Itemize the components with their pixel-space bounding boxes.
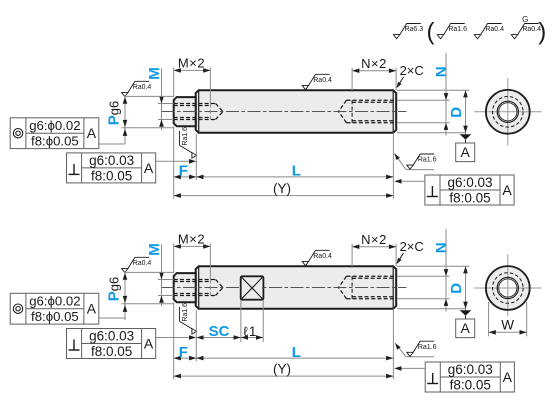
datum A box — [456, 143, 475, 162]
svg-text:(Y): (Y) — [273, 361, 291, 376]
svg-text:A: A — [503, 369, 513, 385]
svg-text:A: A — [144, 160, 154, 176]
extension lines M hole dia — [158, 279, 174, 281]
svg-text:A: A — [502, 182, 512, 198]
leader to right frame — [396, 367, 425, 369]
svg-text:D: D — [448, 107, 465, 118]
extension line M thread depth — [209, 243, 211, 279]
dimension line P dia — [124, 96, 126, 144]
dimension (Y) — [174, 195, 394, 197]
body left chamfer line — [198, 91, 200, 133]
svg-text:f8:0.05: f8:0.05 — [449, 190, 490, 205]
svg-text:D: D — [448, 283, 465, 294]
end view hole circles — [497, 277, 518, 298]
dimension F — [174, 357, 197, 359]
dimension line N dia — [445, 229, 447, 312]
concentricity feature control frame — [10, 118, 99, 149]
dimension line M dia — [161, 245, 163, 307]
svg-text:L: L — [292, 163, 301, 180]
tapped hole M (hidden lines) — [174, 279, 216, 281]
svg-text:N×2: N×2 — [361, 56, 387, 71]
stud (pilot dia P) — [174, 97, 196, 126]
tapped hole N drill cone — [339, 100, 347, 111]
leader arrow on stud extension line — [123, 129, 128, 136]
surface finish Ra0.4 on body — [302, 74, 332, 89]
end view centerlines — [474, 287, 542, 289]
dimension M×2 — [174, 69, 211, 71]
leader from concentricity frame — [99, 317, 125, 319]
extension line body right face (up) — [395, 244, 397, 267]
set-screw flat symbol (square with X) — [241, 276, 264, 299]
svg-text:Ra0.4: Ra0.4 — [313, 253, 332, 260]
svg-text:A: A — [461, 144, 471, 160]
extension lines right end (outer dia) — [397, 89, 470, 91]
svg-text:A: A — [87, 125, 97, 141]
datum A triangle — [460, 310, 472, 316]
surface finish Ra1.6 right end with leader — [395, 343, 406, 357]
extension line N thread depth — [351, 68, 353, 91]
dimension M×2 — [174, 245, 211, 247]
end view outer circle fill — [486, 266, 530, 310]
extension lines right end (hole dia) — [397, 275, 450, 277]
svg-text:Pg6: Pg6 — [106, 101, 123, 125]
extension line body right face (up) — [395, 68, 397, 91]
svg-text:Ra0.4: Ra0.4 — [313, 77, 332, 84]
svg-text:Ra1.6: Ra1.6 — [182, 303, 189, 322]
svg-text:g6:ϕ0.02: g6:ϕ0.02 — [29, 118, 80, 133]
svg-text:g6:0.03: g6:0.03 — [89, 329, 134, 344]
leader to right frame — [396, 180, 425, 182]
svg-text:F: F — [179, 163, 188, 180]
extension lines stud dia — [124, 95, 174, 97]
thread end line N — [351, 276, 353, 298]
extension line stud left below — [173, 126, 175, 199]
dimension SC — [196, 337, 241, 339]
svg-text:f8:0.05: f8:0.05 — [91, 168, 132, 183]
svg-text:Ra6.3: Ra6.3 — [404, 26, 423, 33]
svg-text:M: M — [146, 243, 163, 256]
extension lines from flat symbol — [240, 300, 242, 342]
extension line N thread depth — [351, 244, 353, 267]
thread end line N — [351, 100, 353, 122]
extension line body right face (down) — [392, 133, 394, 199]
svg-text:g6:0.03: g6:0.03 — [448, 362, 493, 377]
perpendicularity feature control frame (right) — [425, 362, 514, 392]
svg-text:A: A — [461, 320, 471, 336]
extension lines M hole dia — [158, 103, 174, 105]
svg-text:Ra1.6: Ra1.6 — [418, 157, 437, 164]
tapped hole M drill cone — [216, 280, 224, 288]
body right chamfer line — [392, 91, 394, 133]
svg-text:A: A — [87, 300, 97, 316]
extension line stud left face — [173, 243, 175, 273]
surface finish Ra1.6 on shoulder (rotated) — [179, 307, 181, 322]
svg-text:Ra1.6: Ra1.6 — [418, 344, 437, 351]
end view outer circle — [486, 266, 530, 310]
svg-text:N: N — [433, 242, 450, 253]
surface finish Ra0.4 on stud — [122, 81, 152, 96]
concentricity feature control frame — [10, 293, 99, 324]
extension line stud left below — [173, 302, 175, 379]
dimension W — [488, 302, 490, 336]
dimension D with datum A — [465, 266, 467, 310]
leader arrow on stud extension line — [123, 305, 128, 312]
svg-text:M×2: M×2 — [178, 232, 205, 247]
svg-text:2×C: 2×C — [400, 63, 424, 78]
perpendicularity feature control frame (left) — [67, 153, 156, 183]
extension lines right end (hole dia) — [397, 99, 450, 101]
dimension L — [196, 357, 393, 359]
dimension line N dia — [445, 53, 447, 136]
dimension N×2 — [352, 246, 396, 248]
svg-text:M×2: M×2 — [178, 56, 205, 71]
tapped hole M (hidden lines) — [174, 103, 216, 105]
dimension D with datum A — [465, 90, 467, 134]
svg-text:N×2: N×2 — [361, 232, 387, 247]
svg-text:SC: SC — [209, 323, 230, 340]
surface finish Ra0.4 on body — [302, 250, 332, 265]
svg-text:Ra0.4: Ra0.4 — [133, 84, 152, 91]
svg-text:F: F — [179, 344, 188, 361]
shaft body — [196, 90, 397, 133]
svg-text:(: ( — [427, 19, 435, 46]
extension lines stud dia — [124, 271, 174, 273]
dimension L — [196, 176, 393, 178]
end view hole circles — [497, 101, 518, 122]
end view outer circle fill — [486, 90, 530, 134]
svg-text:N: N — [433, 66, 450, 77]
end view centerlines — [474, 111, 542, 113]
surface finish note G Ra0.4 — [511, 24, 541, 39]
svg-text:g6:0.03: g6:0.03 — [447, 175, 492, 190]
extension line body left face below — [195, 310, 197, 362]
svg-text:M: M — [146, 67, 163, 80]
dimension F — [174, 176, 197, 178]
svg-text:2×C: 2×C — [400, 239, 424, 254]
surface finish note Ra1.6 — [437, 24, 467, 39]
stud (pilot dia P) — [174, 273, 196, 302]
extension line stud left face — [173, 67, 175, 97]
dimension line P dia — [124, 272, 126, 320]
svg-text:Ra0.4: Ra0.4 — [133, 260, 152, 267]
dimension l1 — [241, 337, 263, 339]
svg-text:L: L — [292, 344, 301, 361]
extension lines right end (outer dia) — [397, 265, 470, 267]
svg-text:): ) — [538, 19, 546, 46]
end view outer circle — [486, 90, 530, 134]
shaft body — [196, 266, 397, 309]
svg-text:Ra1.6: Ra1.6 — [448, 26, 467, 33]
leader from perpendicularity frame — [156, 337, 190, 339]
svg-text:f8:ϕ0.05: f8:ϕ0.05 — [31, 133, 79, 148]
extension line M thread depth — [209, 67, 211, 103]
extension line body right face (down) — [392, 309, 394, 379]
dimension N×2 — [352, 70, 396, 72]
svg-text:G: G — [522, 15, 528, 24]
tapped hole M drill cone — [216, 104, 224, 112]
svg-text:Ra1.6: Ra1.6 — [182, 127, 189, 146]
svg-text:g6:0.03: g6:0.03 — [89, 153, 134, 168]
surface finish Ra1.6 right end with leader — [395, 154, 407, 170]
surface finish note Ra6.3 — [393, 24, 423, 39]
leader from perpendicularity frame — [156, 160, 190, 162]
perpendicularity feature control frame (left) — [67, 329, 156, 359]
dimension (Y) — [174, 375, 394, 377]
datum A triangle — [460, 134, 472, 140]
dimension line M dia — [161, 69, 163, 131]
leader from concentricity frame — [99, 143, 125, 145]
svg-text:f8:ϕ0.05: f8:ϕ0.05 — [31, 309, 79, 324]
centerline — [162, 111, 407, 113]
tapped hole N drill cone — [339, 276, 347, 287]
svg-text:W: W — [501, 318, 514, 333]
end view thread major circle (dashed) — [493, 273, 524, 304]
svg-text:ℓ1: ℓ1 — [243, 324, 257, 339]
end view thread major circle (dashed) — [493, 97, 524, 128]
surface finish Ra0.4 on stud — [122, 257, 152, 272]
svg-text:g6:ϕ0.02: g6:ϕ0.02 — [29, 294, 80, 309]
tapped hole N (hidden lines) — [347, 99, 396, 101]
body right chamfer line — [392, 267, 394, 309]
surface finish Ra1.6 on shoulder (rotated) — [179, 131, 181, 146]
surface finish note Ra0.4 — [474, 24, 504, 39]
extension line body left face below — [195, 134, 197, 180]
svg-text:(Y): (Y) — [273, 181, 291, 196]
svg-text:Pg6: Pg6 — [106, 277, 123, 301]
tapped hole N (hidden lines) — [347, 275, 396, 277]
svg-text:Ra0.4: Ra0.4 — [485, 26, 504, 33]
centerline — [162, 287, 407, 289]
perpendicularity feature control frame (right) — [425, 175, 514, 205]
svg-text:A: A — [144, 336, 154, 352]
svg-text:f8:0.05: f8:0.05 — [91, 344, 132, 359]
body left chamfer line — [198, 267, 200, 309]
datum A box — [456, 319, 475, 338]
svg-text:f8:0.05: f8:0.05 — [450, 377, 491, 392]
